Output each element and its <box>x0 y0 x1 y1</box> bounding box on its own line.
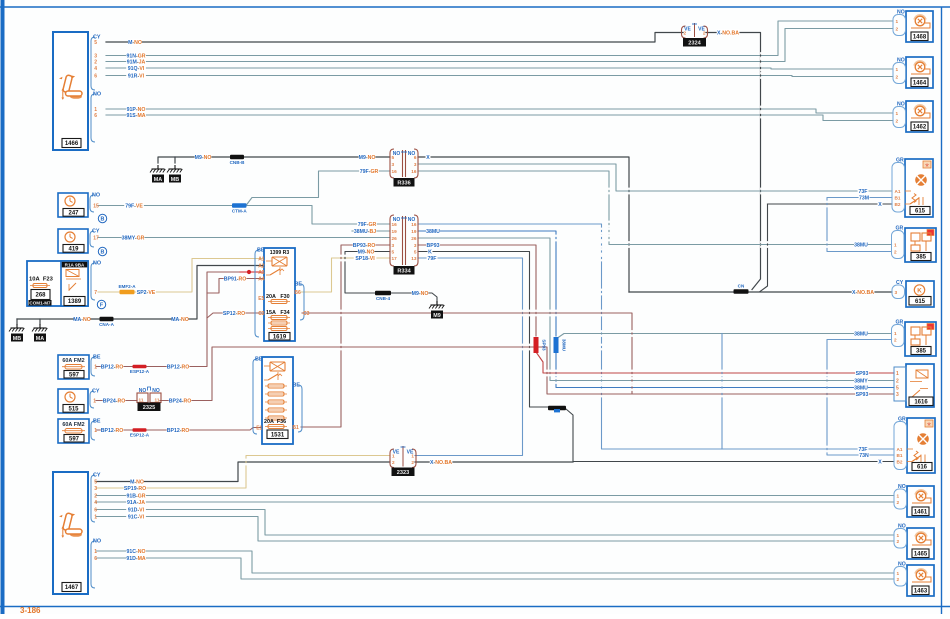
svg-text:M-NO: M-NO <box>128 40 142 46</box>
svg-text:2: 2 <box>896 75 899 80</box>
label 38MY-GR <box>122 234 145 241</box>
svg-text:16: 16 <box>392 169 398 174</box>
svg-text:38MU: 38MU <box>426 229 440 235</box>
wire 91S-MA 1466 to 1462 pin2 <box>106 115 893 121</box>
component 1461 seat motor ref label 1461 <box>912 507 929 516</box>
svg-text:11: 11 <box>155 398 160 403</box>
svg-text:10A F23: 10A F23 <box>29 277 54 283</box>
svg-text:K: K <box>917 288 922 295</box>
label 38MU at 1616 pin5 <box>854 384 868 391</box>
label 73M at 615 B1 <box>859 194 870 201</box>
label 38MU at 385 second <box>854 330 868 337</box>
svg-text:MA: MA <box>36 336 44 342</box>
1389 ref label <box>64 297 85 306</box>
svg-text:1531: 1531 <box>271 432 285 438</box>
svg-text:1465: 1465 <box>914 551 928 557</box>
ground MA top <box>150 165 165 183</box>
svg-text:1: 1 <box>94 365 97 371</box>
component 419 timer unit <box>58 229 88 253</box>
wire CN splice to 615 pin3 X-NO.BA <box>748 291 892 293</box>
svg-text:385: 385 <box>916 349 927 355</box>
label 73N at 616 B1 <box>859 452 870 459</box>
splice SP93 vertical <box>534 337 547 353</box>
svg-text:6: 6 <box>94 74 97 80</box>
component 1468 seat motor <box>906 11 933 42</box>
svg-text:BP12-RO: BP12-RO <box>101 428 124 434</box>
svg-text:515: 515 <box>68 407 79 413</box>
component 385 relay first ref label 385 <box>911 253 931 261</box>
wire 38MY-GR 419 to R334 pin26 <box>98 237 390 239</box>
component 1461 seat motor connector NO <box>894 484 907 509</box>
label 73F at 616 A1 <box>858 446 869 453</box>
svg-text:1: 1 <box>897 571 900 576</box>
wire 79F-GR CTM-A branch to R334 pin16 <box>247 206 390 225</box>
inline connector 2323 <box>390 446 416 468</box>
svg-text:A4: A4 <box>258 277 265 283</box>
svg-text:SP19-RO: SP19-RO <box>124 486 146 492</box>
wire X-NO.BA 2323 to 616 B2 <box>415 461 573 463</box>
wire 73N 385-2 pin2 to 616 B1 <box>827 340 894 456</box>
svg-text:BP24-RO: BP24-RO <box>169 399 192 405</box>
wire 38MU R334 pin16 to 616 A1 73F <box>418 224 894 449</box>
svg-text:17: 17 <box>392 256 398 261</box>
svg-text:R334: R334 <box>397 268 411 274</box>
wire 91Q-VI 1466 to 1464 pin1 <box>106 68 893 69</box>
label X at 615 B2 <box>878 201 883 208</box>
svg-text:CY: CY <box>92 229 100 235</box>
svg-text:B1: B1 <box>897 453 903 458</box>
svg-text:BP12-RO: BP12-RO <box>167 365 190 371</box>
component 1464 seat motor connector NO <box>893 58 906 84</box>
wire M-NO 1466 pin5 to 2324 <box>106 33 683 43</box>
svg-text:2: 2 <box>894 338 897 343</box>
svg-text:15: 15 <box>93 204 99 210</box>
svg-text:CY: CY <box>93 473 101 479</box>
svg-text:GR: GR <box>896 158 904 164</box>
svg-text:3: 3 <box>94 486 97 492</box>
component 1462 seat motor <box>906 101 933 132</box>
1531 connector BE right <box>292 383 302 433</box>
svg-text:1463: 1463 <box>914 588 928 594</box>
svg-text:B: B <box>101 250 105 256</box>
1467 connector CY <box>91 473 101 523</box>
svg-text:6: 6 <box>94 508 97 514</box>
svg-text:MA: MA <box>154 177 162 183</box>
svg-text:E5: E5 <box>258 296 264 302</box>
svg-text:CY: CY <box>92 389 100 395</box>
splice CTM-A <box>232 203 247 213</box>
wire crossing hops <box>245 52 828 465</box>
1467 ref label <box>62 583 81 592</box>
component 1467 seat adjustment switch <box>53 472 88 594</box>
1619 ref label <box>269 333 290 341</box>
svg-text:79F-GR: 79F-GR <box>360 169 379 175</box>
label BP93 right of R334 <box>426 242 440 249</box>
svg-text:A3: A3 <box>258 270 265 276</box>
svg-text:EMF2-A: EMF2-A <box>118 284 136 289</box>
label 91Q-VI <box>126 65 146 72</box>
component 1465 seat motor ref label 1465 <box>912 549 929 558</box>
svg-text:2: 2 <box>392 460 395 465</box>
svg-text:2324: 2324 <box>688 40 701 46</box>
svg-text:MB: MB <box>13 336 21 342</box>
svg-text:38MU-BJ: 38MU-BJ <box>354 229 376 235</box>
wire SP18-VI R334 pin17 from 1619 B6 <box>300 258 390 292</box>
1531 internal fuses <box>265 384 287 420</box>
svg-text:C3: C3 <box>258 311 265 317</box>
svg-text:CNB-B: CNB-B <box>230 160 245 165</box>
wire 79F-VE 247 to CTM-A and R336 pin16 <box>98 171 390 206</box>
ground stem MA bottom-left <box>39 319 41 324</box>
svg-text:38MU: 38MU <box>562 339 567 352</box>
svg-text:1: 1 <box>411 454 414 459</box>
svg-text:79F-GR: 79F-GR <box>358 222 377 228</box>
1466 connector CY <box>91 35 101 91</box>
wire 91D-VI 1467 to 1465 pin1 <box>96 510 894 536</box>
component 1468 seat motor ref label 1468 <box>911 32 928 41</box>
1531 ref label <box>267 430 288 439</box>
1466 ref label <box>62 139 81 148</box>
wire R334 pin19 to splice 38MU <box>418 231 556 336</box>
ground M9 middle <box>429 301 444 319</box>
svg-text:X: X <box>878 460 882 466</box>
svg-text:B1: B1 <box>895 196 901 201</box>
wire K R334 pin5 to splice <box>418 252 548 408</box>
label BP91-RO at 1619 A4 <box>224 275 247 282</box>
svg-text:3: 3 <box>896 392 899 398</box>
svg-text:91R-VI: 91R-VI <box>128 74 145 80</box>
svg-text:5: 5 <box>392 250 395 255</box>
svg-text:3: 3 <box>392 162 395 167</box>
svg-text:1461: 1461 <box>914 509 928 515</box>
svg-text:GR: GR <box>898 417 906 423</box>
label K right of R334 <box>428 248 433 255</box>
wire X-NO.BA 2324 to splice CN <box>706 33 761 290</box>
svg-text:2: 2 <box>894 250 897 255</box>
label X-NO.BA after 2323 <box>430 459 453 466</box>
svg-text:BE: BE <box>93 355 101 361</box>
1616 connector pins <box>894 367 906 401</box>
svg-text:3: 3 <box>895 290 898 295</box>
svg-text:BP91-RO: BP91-RO <box>224 277 247 283</box>
svg-text:2: 2 <box>411 460 414 465</box>
svg-text:X: X <box>878 202 882 208</box>
svg-text:73M: 73M <box>859 196 869 202</box>
svg-text:B: B <box>101 217 105 223</box>
component 247 timer unit ref label 247 <box>63 209 84 217</box>
svg-text:1389: 1389 <box>68 299 82 305</box>
wire 91A-JA 1467 to 1461 pin2 <box>96 501 894 503</box>
wire splice to 616 B2 X <box>566 409 894 462</box>
component 268 fuse box assembly <box>27 261 88 306</box>
wire R336 pin3 to 615 A1 73F <box>418 164 892 191</box>
svg-text:19: 19 <box>392 229 398 234</box>
svg-text:X-NO.BA: X-NO.BA <box>717 31 739 37</box>
1531 connector BE left <box>253 357 263 435</box>
svg-text:1: 1 <box>897 494 900 499</box>
svg-text:SP93: SP93 <box>542 339 547 351</box>
svg-text:268: 268 <box>35 293 46 299</box>
wire A3 red segment <box>240 271 264 273</box>
1619 connector BE right <box>294 282 304 321</box>
svg-text:1: 1 <box>896 19 899 24</box>
wire 91B-GR 1467 to 1461 pin1 <box>96 495 894 497</box>
svg-text:3: 3 <box>414 162 417 167</box>
svg-text:M9-NO: M9-NO <box>412 291 429 297</box>
svg-text:M9: M9 <box>433 313 441 319</box>
svg-text:NO: NO <box>897 102 905 108</box>
component 1616 control unit <box>906 364 934 407</box>
svg-text:5: 5 <box>392 155 395 160</box>
svg-text:MB: MB <box>171 177 179 183</box>
svg-text:247: 247 <box>68 211 79 217</box>
svg-text:3: 3 <box>392 243 395 248</box>
splice ESP12-A fuse wire 597 lower <box>130 428 150 437</box>
inline connector 2324 ref label 2324 <box>684 39 706 47</box>
label 91R-VI <box>126 72 146 79</box>
inline connector 2325 <box>137 387 161 403</box>
splice CN <box>734 284 749 294</box>
component 1461 seat motor <box>907 486 934 517</box>
svg-text:C3: C3 <box>303 311 310 317</box>
label MA-NO left <box>73 316 91 323</box>
svg-text:1: 1 <box>94 515 97 521</box>
component 247 timer unit <box>58 193 88 217</box>
svg-text:11: 11 <box>139 398 144 403</box>
svg-text:SP12-RO: SP12-RO <box>223 311 245 317</box>
svg-text:NO: NO <box>93 539 101 545</box>
597 upper connector BE <box>91 355 101 377</box>
svg-text:1462: 1462 <box>913 124 927 130</box>
svg-text:91Q-VI: 91Q-VI <box>128 66 145 72</box>
1616 ref label <box>909 397 933 406</box>
1619 connector BE left <box>255 248 265 338</box>
svg-text:38MY: 38MY <box>854 379 868 385</box>
svg-text:MA-NO: MA-NO <box>171 317 189 323</box>
1619 fuse 20A F30 <box>266 294 290 304</box>
splice on K wire <box>548 406 566 411</box>
wire M-NO 1467 pin5 to 2323 <box>96 462 390 482</box>
label 91N-GR <box>126 52 146 59</box>
component 616 seat ventilation unit ref label 616 <box>912 463 932 471</box>
svg-text:38MY-GR: 38MY-GR <box>122 236 145 242</box>
svg-text:BP12-RO: BP12-RO <box>167 428 190 434</box>
svg-text:E1: E1 <box>256 426 262 432</box>
inline connector R334 <box>390 215 418 266</box>
svg-text:16: 16 <box>411 222 417 227</box>
svg-text:A2: A2 <box>258 264 265 270</box>
wire X R336 pin6 down <box>418 157 629 292</box>
component 515 timer unit ref label 515 <box>63 405 84 413</box>
svg-text:385: 385 <box>916 255 927 261</box>
svg-text:1466: 1466 <box>65 141 79 147</box>
svg-text:1: 1 <box>896 371 899 377</box>
svg-text:91S-MA: 91S-MA <box>126 113 145 119</box>
label 79F right of R334 <box>427 255 438 262</box>
1619 spare fuses <box>268 321 290 331</box>
label BP93-RO at R334 <box>353 242 376 249</box>
label 91A-JA 1467 <box>126 499 146 506</box>
label M-NO <box>128 39 142 46</box>
ground MB top <box>167 165 182 183</box>
svg-text:SP93: SP93 <box>856 392 869 398</box>
wire BP12-RO 597 to 1531 E1 <box>96 428 262 431</box>
wire SP19-RO 1467 to 2323 <box>96 456 390 489</box>
svg-text:1: 1 <box>896 111 899 116</box>
wire 91C-NO 1467 to 1463 pin1 <box>96 551 894 573</box>
label M9-NO at R334 <box>358 248 375 255</box>
component 1464 seat motor ref label 1464 <box>911 78 928 87</box>
inline connector R336 <box>390 149 418 178</box>
svg-text:91C-VI: 91C-VI <box>128 515 145 521</box>
inline connector R336 ref label R336 <box>394 179 414 187</box>
label 91D-VI 1467 <box>126 506 146 513</box>
label 91B-GR 1467 <box>126 492 146 499</box>
component 1464 seat motor <box>906 57 933 88</box>
svg-text:X: X <box>426 155 430 161</box>
label X at 616 B2 <box>878 458 883 465</box>
wire 73F branch vertical <box>721 334 723 450</box>
component 515 timer unit <box>58 389 88 413</box>
svg-text:1467: 1467 <box>65 585 79 591</box>
svg-text:BE: BE <box>255 357 263 363</box>
svg-text:SP18-VI: SP18-VI <box>355 256 375 262</box>
wire R336 pin16 to 385 pin1 38MU <box>418 171 892 245</box>
component 597 fuse lower ref label 597 <box>64 435 84 443</box>
wire SP2-VE 1389 to 1619 A1 <box>98 259 264 293</box>
svg-text:615: 615 <box>915 209 926 215</box>
svg-text:60A FM2: 60A FM2 <box>62 358 84 364</box>
inline connector 2325 ref label 2325 <box>138 403 160 411</box>
wire 91R-VI 1466 to 1464 pin2 <box>106 76 893 77</box>
597 connector BE <box>91 419 101 441</box>
svg-text:5: 5 <box>94 40 97 46</box>
ground MA left <box>32 324 47 342</box>
svg-text:16: 16 <box>392 222 398 227</box>
svg-text:91D-MA: 91D-MA <box>126 556 146 562</box>
component 1619 seat module relay plate <box>264 248 295 341</box>
label BP12-RO 537 right <box>167 363 190 370</box>
label 79F-GR at R334 <box>357 221 377 228</box>
svg-text:NO: NO <box>93 92 101 98</box>
label SP93 at 1616 pin3 <box>855 391 869 398</box>
ground MB left <box>9 324 24 342</box>
component 597 fuse upper ref label 597 <box>64 371 84 379</box>
label 91M-JA <box>126 58 146 65</box>
wire splice 38MU to 1616 pin5 <box>556 352 894 388</box>
svg-text:B2: B2 <box>895 202 901 207</box>
component 615 seat ventilation unit ref label 615 <box>910 207 930 215</box>
inline connector 2323 ref label 2323 <box>392 468 414 476</box>
label M9-NO at R336 <box>359 154 376 161</box>
svg-text:BP24-RO: BP24-RO <box>103 399 126 405</box>
component 385 relay second ref label 385 <box>911 347 931 355</box>
svg-text:3: 3 <box>414 243 417 248</box>
label 38MU at 385 first <box>854 241 868 248</box>
svg-text:M9-NO: M9-NO <box>359 155 376 161</box>
svg-text:2323: 2323 <box>397 470 409 476</box>
component 616 seat ventilation unit connector GR <box>894 417 907 470</box>
component 1463 seat motor ref label 1463 <box>912 586 929 595</box>
svg-text:X-NO.BA: X-NO.BA <box>852 290 874 296</box>
svg-text:26: 26 <box>392 236 398 241</box>
svg-text:2: 2 <box>897 539 900 544</box>
svg-text:1616: 1616 <box>914 399 928 405</box>
circled F ref below 1389 <box>97 300 105 308</box>
svg-text:M9-NO: M9-NO <box>195 155 212 161</box>
svg-text:2: 2 <box>896 379 899 385</box>
label 73F at 615 A1 <box>858 188 869 195</box>
label 91C-VI 1467 <box>126 513 146 520</box>
component 1462 seat motor ref label 1462 <box>911 122 928 131</box>
svg-text:A1: A1 <box>897 447 903 452</box>
splice ESP12-A fuse wire 597 upper <box>130 365 150 374</box>
wire 91N-GR 1466 to 1468 pin1 <box>106 21 893 56</box>
svg-text:2: 2 <box>684 31 687 36</box>
svg-text:3-186: 3-186 <box>20 606 41 614</box>
label BP24-RO 515 right <box>169 397 192 404</box>
svg-text:38MU: 38MU <box>854 332 868 338</box>
svg-text:NO: NO <box>898 484 906 490</box>
label X-NO.BA at 615 CY <box>852 289 875 296</box>
splice EMF2-A <box>118 284 136 294</box>
svg-text:CN: CN <box>738 284 745 289</box>
label 79F-VE <box>124 202 144 209</box>
wire splice SP93 to 1616 pin1 <box>536 352 894 373</box>
component 615 seat ventilation unit connector GR <box>892 158 905 212</box>
svg-text:7: 7 <box>94 290 97 296</box>
splice 38MU vertical <box>554 337 567 353</box>
component 1465 seat motor <box>907 528 934 559</box>
component 615 seat ventilation unit <box>905 159 933 217</box>
svg-text:597: 597 <box>69 436 80 442</box>
label BP12-RO 537 left <box>101 363 124 370</box>
svg-text:1: 1 <box>93 399 96 405</box>
svg-text:1619: 1619 <box>273 334 287 340</box>
label SP18-VI at R334 <box>354 255 377 262</box>
label EMF2-A SP2-VE <box>136 289 156 296</box>
wire BP91-RO 1619 A4 hook <box>207 279 264 294</box>
268 ref label <box>31 290 50 300</box>
svg-text:73N: 73N <box>859 453 869 459</box>
svg-text:91D-VI: 91D-VI <box>128 508 145 514</box>
wire 73M 615 B1 to 385 pin2 <box>827 198 892 252</box>
wire X R336 to 615 CY pin3 <box>629 291 748 293</box>
svg-text:26: 26 <box>411 236 417 241</box>
svg-text:NO: NO <box>898 562 906 568</box>
component 385 relay second connector GR <box>892 320 905 347</box>
wire 1619 C3 right maroon <box>302 313 632 394</box>
splice CNA-A <box>99 317 114 327</box>
component 419 timer unit ref label 419 <box>63 245 84 253</box>
label MA-NO right <box>171 316 189 323</box>
svg-text:1: 1 <box>392 454 395 459</box>
1467 connector NO <box>91 539 101 589</box>
svg-text:CTM-A: CTM-A <box>232 208 247 213</box>
component 1463 seat motor <box>907 565 934 596</box>
label M9-NO near ground <box>195 154 212 161</box>
component 615 seat switch part <box>906 281 934 307</box>
svg-text:1468: 1468 <box>913 34 927 40</box>
component 1466 seat adjustment switch <box>53 32 88 150</box>
wire 38MU splice branch to 385-2 pin1 <box>556 334 892 340</box>
svg-text:NO: NO <box>92 193 100 199</box>
1389 connector NO <box>91 261 101 301</box>
svg-text:R336: R336 <box>397 180 410 186</box>
label SP19-RO 1467 <box>124 485 147 492</box>
svg-text:2: 2 <box>94 494 97 500</box>
wire 91D-MA 1467 to 1463 pin2 <box>96 558 894 579</box>
